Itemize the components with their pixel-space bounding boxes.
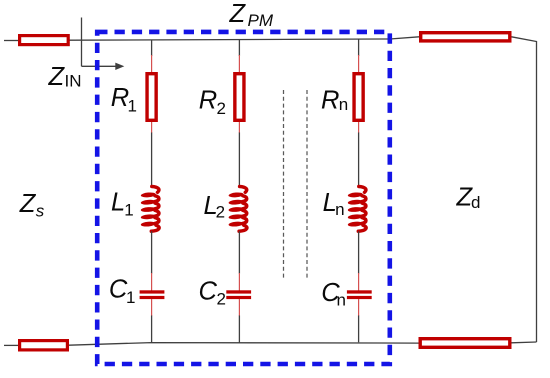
svg-text:s: s: [36, 202, 45, 221]
wire: top bus to Rn: [358, 39, 360, 56]
svg-text:d: d: [471, 193, 480, 212]
svg-text:L: L: [111, 188, 125, 216]
wire: Rn to Ln: [358, 122, 360, 133]
capacitor C1: [140, 290, 165, 293]
svg-text:1: 1: [124, 200, 133, 219]
wire: C1 to bottom bus: [151, 299, 153, 316]
resistor R2: [235, 74, 244, 121]
capacitor C2: [226, 290, 251, 293]
svg-text:n: n: [337, 291, 346, 310]
svg-text:PM: PM: [248, 11, 274, 30]
ellipsis dashed line 2 (more branches): [306, 90, 308, 280]
svg-text:n: n: [339, 95, 348, 114]
wire: Cn to bottom bus: [358, 299, 360, 316]
wire: R1 to L1: [151, 122, 153, 133]
svg-text:2: 2: [216, 202, 225, 221]
wire: Ln to Cn: [358, 231, 360, 273]
svg-text:IN: IN: [65, 72, 82, 91]
wire: left input to Zs resistor: [4, 40, 18, 42]
resistor Zd (top-right load): [421, 33, 510, 41]
resistor R1: [147, 74, 156, 121]
boundary: ZPM matching network dashed box: [97, 32, 390, 364]
wire: bottom-right resistor to right edge: [512, 341, 537, 344]
wire: L2 to C2: [238, 231, 240, 273]
wire: C2 to bottom bus: [238, 299, 240, 316]
resistor Zd (bottom-right): [420, 339, 510, 348]
wire: top bus across network: [70, 37, 420, 40]
svg-text:C: C: [199, 278, 218, 306]
wire: bottom bus across network: [69, 343, 419, 346]
svg-text:n: n: [335, 200, 344, 219]
svg-text:2: 2: [217, 290, 226, 309]
wire: L1 to C1: [151, 231, 153, 273]
svg-text:R: R: [111, 84, 129, 112]
svg-text:Z: Z: [48, 63, 66, 91]
resistor Zs (top-left source): [20, 36, 69, 45]
svg-text:2: 2: [217, 99, 226, 118]
wire: top bus to R2: [238, 39, 240, 56]
resistor Rn: [354, 74, 363, 121]
wire: R2 to L2: [238, 122, 240, 133]
svg-text:1: 1: [128, 97, 137, 116]
wire: top bus to R1: [151, 40, 153, 57]
inductor L2: [243, 196, 247, 202]
ellipsis dashed line 1 (more branches): [283, 90, 285, 280]
svg-text:R: R: [199, 86, 217, 114]
inductor Ln: [362, 196, 366, 202]
svg-text:R: R: [321, 86, 339, 114]
node: Zin reference plane tick: [81, 18, 83, 67]
resistor Zs (bottom-left): [20, 341, 68, 350]
inductor L1: [155, 196, 159, 202]
svg-text:Z: Z: [19, 190, 37, 218]
capacitor Cn: [347, 290, 372, 293]
wire: bottom-left input: [4, 344, 18, 346]
arrow: Zin looking right: [82, 65, 118, 67]
svg-text:1: 1: [126, 288, 135, 307]
wire: top-right resistor to right edge, down: [512, 37, 537, 342]
svg-text:Z: Z: [229, 0, 247, 28]
